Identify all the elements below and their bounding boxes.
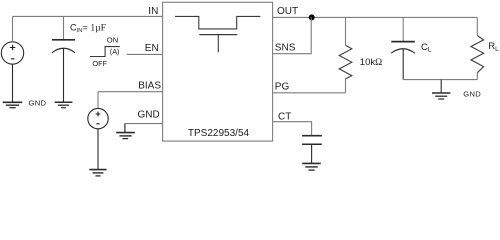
wire IN rail bbox=[13, 15, 163, 17]
svg-text:(A): (A) bbox=[110, 47, 120, 56]
svg-text:SNS: SNS bbox=[275, 43, 296, 54]
voltage source V1 bbox=[1, 42, 23, 64]
svg-text:TPS22953/54: TPS22953/54 bbox=[188, 128, 250, 139]
wire PG bbox=[273, 92, 346, 94]
svg-text:RL: RL bbox=[488, 41, 499, 53]
wire CT bbox=[273, 122, 312, 136]
svg-text:CIN= 1µF: CIN= 1µF bbox=[70, 22, 106, 34]
svg-text:CT: CT bbox=[278, 111, 291, 122]
svg-text:IN: IN bbox=[148, 6, 158, 17]
wire V1 to ground bbox=[12, 64, 14, 102]
resistor RL zigzag bbox=[471, 35, 484, 73]
resistor RL leads bbox=[476, 17, 478, 79]
resistor 10k leads bbox=[345, 17, 347, 92]
wire BIAS to V2 bbox=[97, 92, 99, 109]
junction dot (OUT/SNS) bbox=[309, 14, 315, 20]
transistor gate plate bbox=[199, 34, 237, 36]
wire V1 to IN rail bbox=[12, 16, 14, 41]
svg-text:GND: GND bbox=[137, 110, 159, 121]
wire GND pin bbox=[125, 123, 163, 125]
wire EN bbox=[127, 53, 163, 55]
wire CL tap bbox=[402, 17, 404, 41]
capacitor CL bbox=[391, 42, 415, 80]
ground (V1) bbox=[3, 102, 23, 107]
wire ground stem (output) bbox=[440, 80, 442, 93]
wire BIAS bbox=[98, 91, 163, 93]
wire output bottom bbox=[403, 79, 477, 81]
wire CIN tap bbox=[63, 16, 65, 39]
svg-text:GND: GND bbox=[29, 99, 47, 108]
transistor gate lead bbox=[217, 35, 219, 53]
ground (output) bbox=[432, 93, 450, 99]
svg-text:GND: GND bbox=[463, 89, 481, 98]
IC U1 TPS22953/54 box bbox=[163, 2, 273, 141]
transistor pass-FET channel path bbox=[175, 16, 260, 29]
svg-text:OFF: OFF bbox=[92, 59, 107, 68]
capacitor CT bbox=[302, 136, 322, 163]
svg-text:BIAS: BIAS bbox=[138, 80, 161, 91]
svg-text:10kΩ: 10kΩ bbox=[360, 57, 382, 68]
capacitor CIN bbox=[52, 40, 75, 102]
ground (CIN) bbox=[55, 102, 73, 107]
EN step waveform bbox=[90, 47, 120, 57]
wire GND pin to ground bbox=[124, 124, 126, 133]
ground (CT) bbox=[302, 163, 321, 170]
svg-text:CL: CL bbox=[421, 42, 432, 54]
wire OUT rail bbox=[273, 16, 478, 18]
svg-text:EN: EN bbox=[145, 43, 159, 54]
wire V2 to ground bbox=[97, 129, 99, 169]
ground (GND pin) bbox=[116, 133, 135, 139]
svg-text:OUT: OUT bbox=[277, 6, 298, 17]
ground (V2) bbox=[89, 170, 106, 176]
svg-text:ON: ON bbox=[107, 35, 118, 44]
wire SNS bbox=[273, 17, 312, 53]
resistor 10k zigzag bbox=[339, 45, 352, 79]
svg-text:PG: PG bbox=[275, 82, 290, 93]
voltage source V2 bbox=[88, 108, 108, 128]
